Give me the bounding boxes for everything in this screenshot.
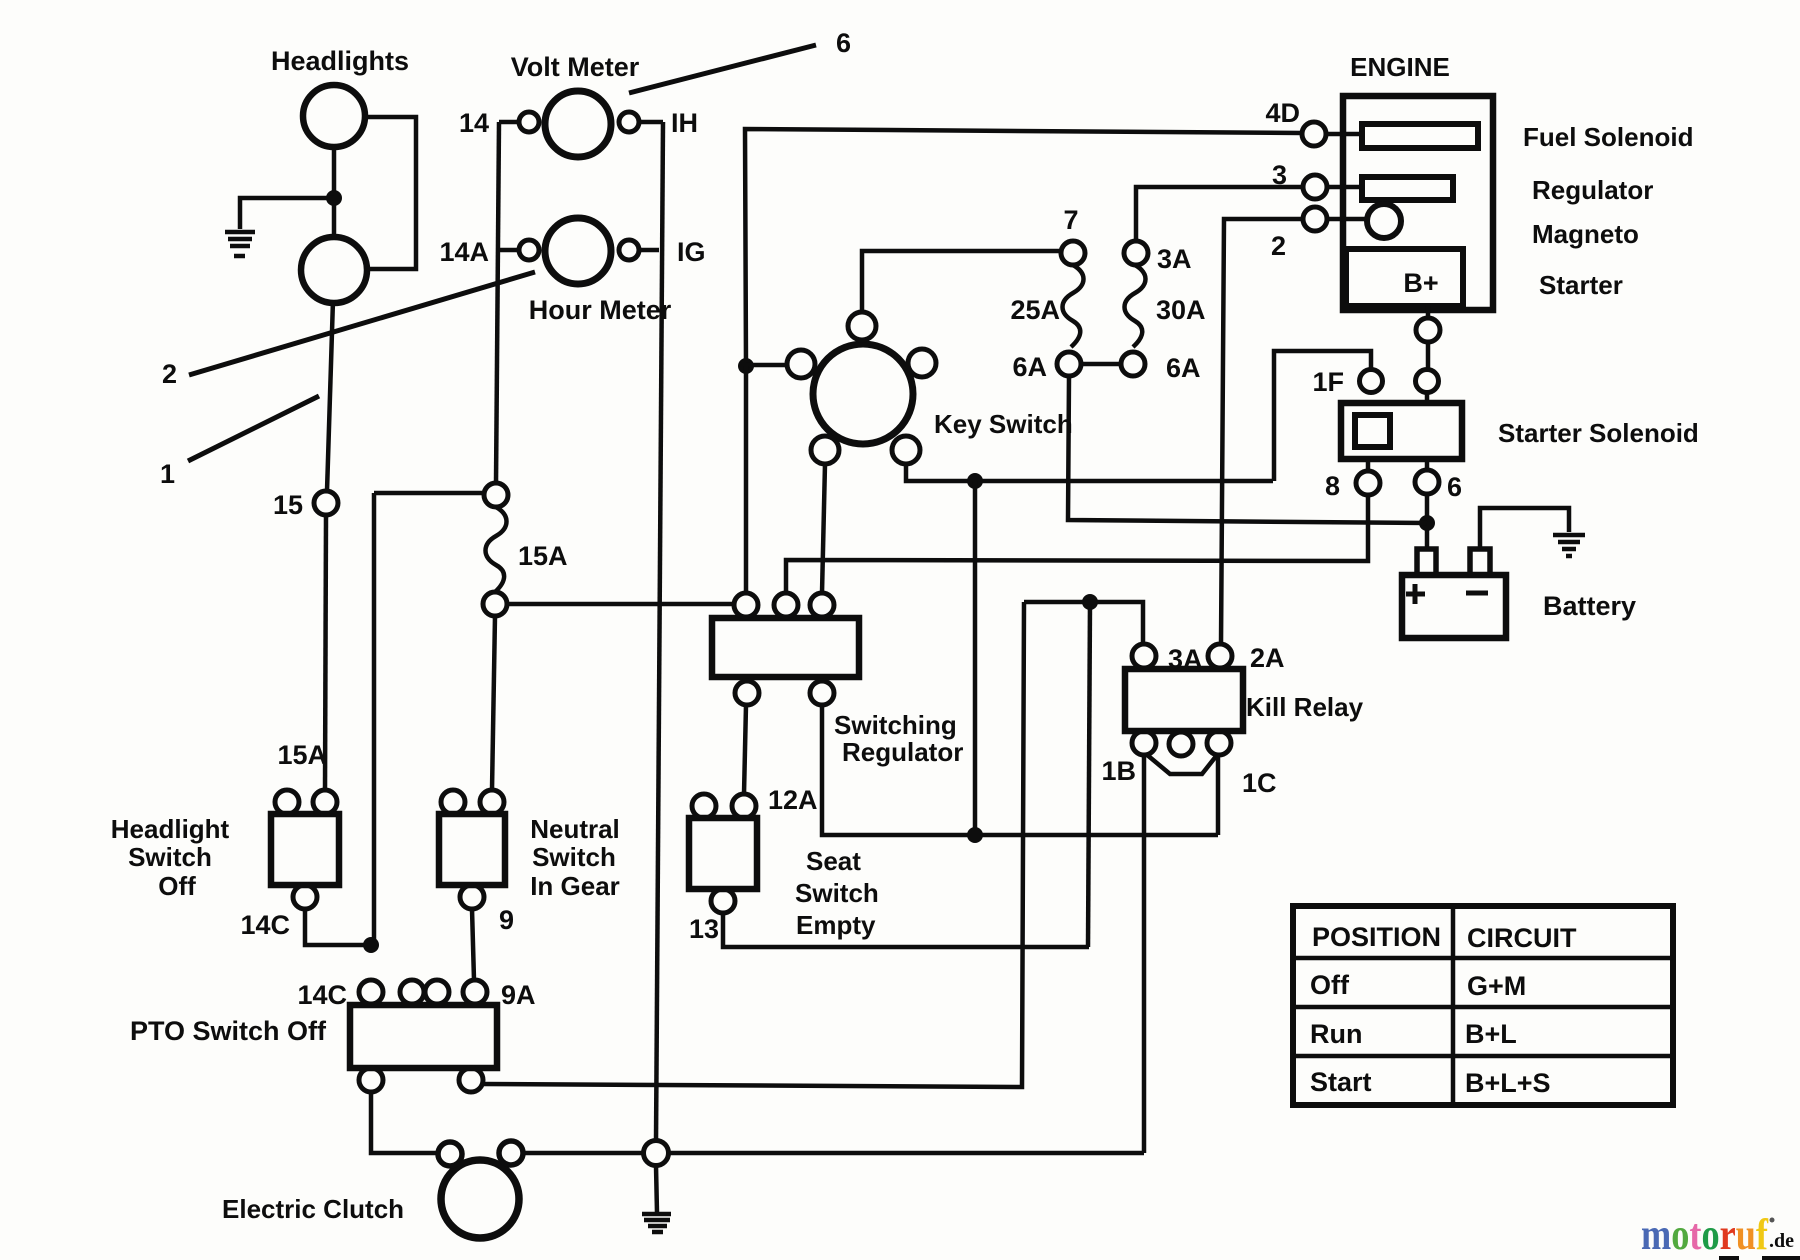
regulator top terminal 1 [734,593,758,617]
headlight lamp upper [303,85,365,147]
ground (battery) [1553,535,1585,556]
svg-text:6: 6 [836,28,851,58]
regulator top terminal 3 [810,593,834,617]
svg-text:30A: 30A [1156,295,1206,325]
svg-text:1C: 1C [1242,768,1277,798]
node 14C junction [363,937,379,953]
battery plus sign [1406,584,1425,604]
svg-text:2: 2 [162,359,177,389]
electric clutch body [441,1160,519,1238]
neutral switch terminal right [480,790,504,814]
wire headlight feed down [327,300,333,491]
headlight switch terminal 14C [293,885,317,909]
node key switch left junction [738,358,754,374]
node below key switch [967,473,983,489]
svg-text:6A: 6A [1012,352,1047,382]
terminal 6A left [1057,352,1081,376]
cut-off text bottom edge [1719,1256,1739,1260]
PTO terminal 9A [463,980,487,1004]
key switch body [813,344,913,444]
svg-text:Switch: Switch [532,842,616,872]
svg-text:Headlights: Headlights [271,46,409,76]
svg-text:Starter Solenoid: Starter Solenoid [1498,418,1699,448]
wire regulator to seat switch 12A [744,705,746,794]
PTO bottom terminal right [459,1068,483,1092]
kill relay terminal 1B [1132,731,1156,755]
battery plus post [1417,549,1436,575]
starter solenoid box [1341,403,1462,459]
node battery junction [1419,515,1435,531]
wire 14C to PTO junction [305,909,371,945]
fuse 15A bottom terminal [483,592,507,616]
seat switch terminal left top [692,794,716,818]
svg-text:2A: 2A [1250,643,1285,673]
starter B+ box [1346,249,1463,306]
node regulator output junction [967,827,983,843]
wire key junction down to regulator [744,366,749,593]
neutral switch terminal 9 [460,885,484,909]
wire clutch to ground terminal [523,1151,643,1156]
svg-text:PTO Switch Off: PTO Switch Off [130,1016,327,1046]
starter solenoid coil square [1355,415,1390,447]
wire to headlight ground [240,198,334,229]
regulator element [1362,177,1453,200]
svg-text:Electric Clutch: Electric Clutch [222,1194,404,1224]
terminal 3A fuse [1124,241,1148,265]
wire node down to regulator output line [973,481,978,835]
svg-text:Kill Relay: Kill Relay [1246,692,1364,722]
key switch terminal top [848,312,876,340]
svg-text:14C: 14C [240,910,290,940]
svg-text:Start: Start [1310,1067,1372,1097]
PTO terminal mid-left [400,980,424,1004]
volt meter [545,91,611,157]
svg-text:CIRCUIT: CIRCUIT [1467,923,1577,953]
battery box [1402,575,1506,638]
terminal 8 [1366,459,1371,471]
wire key bottom-right to 1F line [906,464,1273,481]
headlight switch terminal 15A [313,790,337,814]
svg-text:9A: 9A [501,980,536,1010]
svg-text:Switch: Switch [128,842,212,872]
wire 3 to fuse 3A [1136,187,1303,241]
svg-text:IG: IG [677,237,706,267]
wire 1B down to clutch line [1142,755,1147,1153]
wire regulator output to 1C [822,705,1218,835]
fuel solenoid element [1362,124,1478,148]
key switch terminal right [908,349,936,377]
key switch terminal bottom-right [892,436,920,464]
neutral switch terminal left [441,790,465,814]
wire between headlights [332,146,337,238]
kill relay terminal 2A [1208,644,1232,668]
clutch terminal left [438,1142,462,1166]
wire long ground line IH/IG [656,122,663,1141]
svg-text:Fuel Solenoid: Fuel Solenoid [1523,122,1693,152]
svg-text:ENGINE: ENGINE [1350,52,1450,82]
svg-text:1B: 1B [1101,756,1136,786]
svg-text:Magneto: Magneto [1532,219,1639,249]
svg-text:In Gear: In Gear [530,871,620,901]
svg-text:4D: 4D [1265,98,1300,128]
wire 6A to battery junction [1068,376,1427,523]
kill relay terminal middle [1169,732,1193,756]
svg-text:B+: B+ [1403,268,1438,298]
wire key bottom-left to regulator [822,464,825,593]
svg-text:Regulator: Regulator [1532,175,1653,205]
svg-text:3A: 3A [1157,244,1192,274]
svg-text:15: 15 [273,490,303,520]
wire 14 [499,120,519,125]
wire 15A top branch [374,493,484,945]
wire 4D to key switch junction [745,129,1302,366]
svg-text:Empty: Empty [796,910,876,940]
node clutch ground terminal [644,1141,669,1166]
svg-text:9: 9 [499,905,514,935]
neutral switch box [439,814,505,885]
terminal 6A right [1121,352,1145,376]
terminal 4D [1302,122,1326,146]
wire junction to key left terminal [746,363,787,368]
svg-text:15A: 15A [277,740,327,770]
svg-text:IH: IH [671,108,698,138]
battery minus post [1470,549,1490,575]
svg-text:Switch: Switch [795,878,879,908]
kill relay terminal 1C [1207,731,1231,755]
key switch terminal left [787,350,815,378]
regulator top terminal 2 [774,593,798,617]
switching regulator box [712,618,859,677]
wire 15 down to headlight switch [325,515,326,790]
battery minus sign [1466,591,1488,596]
wire IG stub [639,248,659,253]
terminal 1F [1360,370,1383,393]
table [1293,906,1673,1105]
wire B+ to starter solenoid [1427,306,1428,403]
wire 14/14A vertical down to fuse [496,122,499,483]
PTO terminal 14C [359,980,383,1004]
wire between 6A terminals [1081,362,1121,367]
wire 6 to battery [1425,494,1430,549]
key switch terminal bottom-left [811,436,839,464]
svg-text:6A: 6A [1166,353,1201,383]
svg-text:14C: 14C [297,980,347,1010]
svg-text:motoruf: motoruf [1641,1210,1769,1259]
svg-text:15A: 15A [518,541,568,571]
clutch terminal right [499,1141,523,1165]
svg-text:Starter: Starter [1539,270,1623,300]
pointer line 1 [188,396,319,461]
volt meter left terminal [519,112,539,132]
svg-text:B+L+S: B+L+S [1465,1068,1551,1098]
wire 1F loop to key circuit [1274,351,1371,481]
svg-text:Headlight: Headlight [111,814,230,844]
svg-text:Battery: Battery [1543,591,1636,621]
svg-text:Off: Off [158,871,196,901]
magneto element [1367,204,1401,238]
node headlight ground junction [326,190,342,206]
fuse 30A element [1125,265,1146,347]
regulator bottom terminal right [810,681,834,705]
svg-text:12A: 12A [768,785,818,815]
hour meter right terminal [619,240,639,260]
wire 14A [499,248,519,253]
terminal 3 [1303,175,1327,199]
svg-text:2: 2 [1271,231,1286,261]
wire 9 to PTO 9A [472,909,474,980]
pointer line 2 [189,272,535,375]
wire headlight right loop [363,117,416,269]
kill relay box [1125,669,1243,731]
svg-text:14: 14 [459,108,489,138]
svg-text:13: 13 [689,914,719,944]
headlight switch box [271,814,339,885]
PTO switch box [350,1005,497,1068]
wire kill relay 3A junction vertical [1088,602,1090,947]
wire 13 to kill relay branch [723,913,1089,947]
node kill relay 3A junction [1082,594,1098,610]
svg-text:Hour Meter: Hour Meter [529,295,672,325]
svg-text:Volt Meter: Volt Meter [511,52,640,82]
fuse 15A element [486,507,507,592]
wire key top terminal to 7 [862,251,1061,312]
wire kill relay jumper [1146,754,1217,774]
wire IH stub [639,120,663,125]
seat switch box [689,818,757,889]
volt meter right terminal [619,112,639,132]
ground (headlights) [225,232,255,256]
svg-text:8: 8 [1325,471,1340,501]
wire ground terminal to 1B [669,1151,1144,1156]
svg-text:Switching: Switching [834,710,957,740]
fuse 15A top terminal [484,483,508,507]
seat switch terminal 13 [711,889,735,913]
terminal 2 [1303,207,1327,231]
seat switch terminal 12A [732,794,756,818]
wire PTO to clutch [371,1092,437,1153]
terminal 6 [1425,459,1430,470]
svg-text:G+M: G+M [1467,971,1526,1001]
regulator bottom terminal left [735,681,759,705]
svg-text:1: 1 [160,459,175,489]
svg-text:Neutral: Neutral [530,814,620,844]
wire ground line below terminal [656,1166,657,1213]
node terminal 15 [314,491,338,515]
pointer line 6 [629,45,816,93]
wire PTO to junction riser [483,602,1024,1087]
headlight lamp lower [301,237,367,303]
svg-text:Run: Run [1310,1019,1362,1049]
node B+ terminal [1416,318,1440,342]
wire 8 to switching regulator [786,495,1368,593]
node starter solenoid top terminal [1416,370,1439,393]
wire junction to kill relay 3A [1024,602,1143,644]
engine box [1343,96,1493,310]
svg-text:25A: 25A [1010,295,1060,325]
headlight switch terminal left [275,790,299,814]
PTO terminal mid-right [425,980,449,1004]
svg-text:Seat: Seat [806,846,861,876]
svg-text:POSITION: POSITION [1312,922,1441,952]
svg-text:.de: .de [1769,1230,1794,1252]
svg-text:14A: 14A [439,237,489,267]
svg-text:Key Switch: Key Switch [934,409,1073,439]
wire 2 to kill relay 2A [1221,219,1303,644]
hour meter left terminal [519,240,539,260]
kill relay terminal 3A [1132,644,1156,668]
ground (bottom center) [642,1214,671,1232]
svg-text:1F: 1F [1312,367,1344,397]
svg-text:7: 7 [1063,205,1078,235]
hour meter [545,218,611,284]
svg-text:B+L: B+L [1465,1019,1517,1049]
wire 1C down to regulator line [1216,755,1221,835]
svg-text:3A: 3A [1168,644,1203,674]
fuse 25A element [1063,265,1084,347]
terminal 7 [1061,241,1085,265]
wire battery minus to ground [1480,508,1569,549]
svg-text:Off: Off [1310,970,1350,1000]
wire fuse bottom to regulator [507,602,734,607]
wire fuse bottom down to neutral switch [492,616,495,790]
svg-text:Regulator: Regulator [842,737,963,767]
PTO bottom terminal left [359,1068,383,1092]
svg-text:6: 6 [1447,472,1462,502]
